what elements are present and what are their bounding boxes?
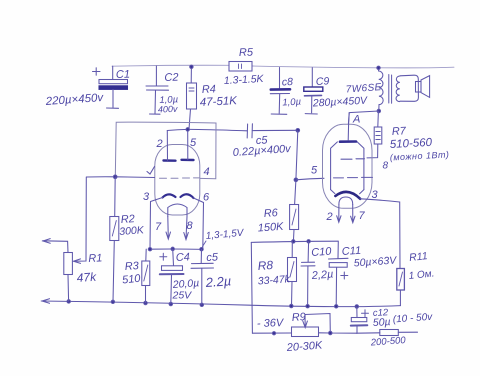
tube V1 grid dashes <box>160 177 200 179</box>
svg-text:C1: C1 <box>116 69 130 81</box>
svg-text:(10 - 50v: (10 - 50v <box>392 312 433 326</box>
svg-text:2.2µ: 2.2µ <box>204 273 232 290</box>
svg-text:510: 510 <box>122 273 142 287</box>
wire -36V feed <box>252 332 291 334</box>
svg-text:R8: R8 <box>257 258 274 273</box>
junction dot transformer bottom / node A <box>377 109 380 112</box>
wire bias node <box>251 241 338 242</box>
capacitor C11 <box>329 241 349 306</box>
svg-text:1.3-1.5K: 1.3-1.5K <box>224 73 265 87</box>
svg-text:6: 6 <box>203 192 210 204</box>
resistor R10 200-500 <box>357 330 418 336</box>
svg-text:A: A <box>352 114 360 126</box>
junction dot grid node <box>113 175 117 179</box>
svg-text:1 Ом.: 1 Ом. <box>408 268 435 282</box>
svg-text:50µ×63V: 50µ×63V <box>353 254 397 269</box>
junction dot C6 top <box>200 248 203 251</box>
svg-text:510-560: 510-560 <box>390 137 433 151</box>
svg-text:R1: R1 <box>88 252 103 265</box>
tube V2 anode box <box>331 142 364 194</box>
tube V2 heater <box>339 197 353 205</box>
svg-text:200-500: 200-500 <box>369 335 406 349</box>
capacitor C4 <box>160 249 184 304</box>
ground bus left arrow <box>42 299 50 304</box>
wire V2 anode lead <box>348 113 349 140</box>
svg-text:5: 5 <box>311 165 318 177</box>
transformer T1 secondary <box>396 76 400 102</box>
junction dot R8 bottom <box>290 304 293 307</box>
tube V1 cathode arcs <box>163 194 176 197</box>
capacitor C10 <box>301 241 315 306</box>
svg-text:R5: R5 <box>239 46 254 59</box>
svg-text:C2: C2 <box>164 72 178 84</box>
svg-text:47-51K: 47-51K <box>200 95 239 109</box>
transformer T1 primary <box>379 68 384 111</box>
tube V1 heater <box>168 204 187 217</box>
heater arrow 7 (V2) <box>351 205 355 223</box>
svg-text:8: 8 <box>383 161 389 172</box>
svg-text:47k: 47k <box>76 270 97 285</box>
resistor R5 <box>229 62 252 72</box>
svg-text:(можно 1Вт): (можно 1Вт) <box>390 149 450 162</box>
potentiometer R1 <box>43 177 87 301</box>
wire V1 grid pin1 to junction <box>87 176 155 179</box>
svg-text:0.22µ×400v: 0.22µ×400v <box>232 143 292 159</box>
heater arrow 2 (V2) <box>337 205 341 223</box>
svg-text:280µ×450V: 280µ×450V <box>312 95 369 110</box>
svg-text:1,0µ: 1,0µ <box>282 97 302 109</box>
wire ground bus <box>42 301 401 307</box>
transformer T1 core <box>389 75 392 104</box>
tube V2 grid1 dashes <box>341 158 365 160</box>
svg-text:2,2µ: 2,2µ <box>310 269 333 283</box>
wire V2 grid <box>296 178 324 180</box>
svg-text:25V: 25V <box>172 290 193 302</box>
svg-text:7: 7 <box>155 221 162 233</box>
capacitor C9 <box>304 68 323 114</box>
junction dot R1 bottom <box>67 300 70 303</box>
svg-text:R6: R6 <box>263 207 279 220</box>
svg-text:R9: R9 <box>291 311 306 324</box>
tick to cathode node <box>203 241 207 247</box>
resistor R11 <box>397 269 405 306</box>
junction dot C5 out top <box>296 129 300 133</box>
svg-text:4: 4 <box>204 166 210 178</box>
heater arrow 7 <box>166 217 171 240</box>
svg-text:C10: C10 <box>311 246 333 259</box>
capacitor C12 <box>351 307 369 334</box>
pin label 1 <box>147 167 155 175</box>
svg-text:7: 7 <box>359 210 366 222</box>
svg-text:50µ: 50µ <box>373 316 391 329</box>
wire B+ rail right segment <box>252 66 454 68</box>
resistor R2 <box>110 177 119 302</box>
svg-text:33-47k: 33-47k <box>257 273 291 287</box>
wire V1 grid loop pin4 <box>115 122 216 179</box>
wire bias feed down <box>251 242 252 333</box>
junction dot R2 bottom <box>111 300 114 303</box>
svg-text:3: 3 <box>143 191 150 203</box>
junction dot B+ / transformer <box>377 66 380 69</box>
capacitor C5 <box>247 124 298 138</box>
svg-text:c5: c5 <box>206 251 219 264</box>
wire node A <box>348 111 378 124</box>
junction dot C6 bottom <box>200 303 203 306</box>
svg-text:7W6SE: 7W6SE <box>345 82 382 95</box>
svg-text:300K: 300K <box>119 224 145 238</box>
svg-text:5: 5 <box>190 137 197 149</box>
svg-text:R7: R7 <box>392 125 408 138</box>
svg-text:R11: R11 <box>409 250 429 264</box>
junction dot R9 right <box>329 331 332 334</box>
tube V2 envelope <box>323 124 373 208</box>
svg-text:1,3-1,5V: 1,3-1,5V <box>205 228 245 242</box>
resistor R7 <box>367 111 382 158</box>
heater arrow 8 <box>184 217 189 240</box>
svg-text:2: 2 <box>326 211 333 223</box>
wire V1 cathode node <box>150 248 203 250</box>
junction dot C12 top <box>355 305 358 308</box>
wire V1 cathode pin6 <box>194 198 204 249</box>
speaker <box>400 75 430 101</box>
tube V2 grid2 dashes <box>334 176 373 179</box>
junction dot C10 top <box>307 240 310 243</box>
junction dot plate bus <box>186 128 189 131</box>
junction dot C11 bottom <box>335 305 338 308</box>
capacitor C6 <box>191 249 214 305</box>
junction dot R9 left lead <box>272 332 275 335</box>
wire V1 anode leads <box>166 131 168 161</box>
wire C5 to V2 grid <box>296 130 298 180</box>
capacitor C8 <box>270 68 290 115</box>
svg-text:C11: C11 <box>341 245 361 258</box>
svg-text:C9: C9 <box>316 75 330 88</box>
svg-text:220µ×450v: 220µ×450v <box>44 92 104 108</box>
resistor R8 <box>288 241 297 306</box>
svg-text:R3: R3 <box>124 260 140 273</box>
junction dot C4 bottom <box>169 302 172 305</box>
svg-text:- 36V: - 36V <box>257 317 285 330</box>
resistor R4 <box>187 67 197 129</box>
svg-text:2: 2 <box>156 138 163 150</box>
junction dot C10 bottom <box>306 305 309 308</box>
junction dot R6 bottom <box>292 240 295 243</box>
capacitor C1 <box>93 66 128 108</box>
svg-text:400v: 400v <box>158 104 178 115</box>
potentiometer R9 <box>292 314 357 337</box>
wire V1 cathode pin3 <box>150 198 163 250</box>
tube V1 anode plates <box>164 159 176 162</box>
wire B+ rail left segment <box>112 64 229 67</box>
svg-text:c8: c8 <box>282 76 294 89</box>
wire V1 plate bus to C5 <box>167 129 247 130</box>
svg-text:20-30K: 20-30K <box>285 340 323 355</box>
junction dot V2 grid node <box>294 178 298 182</box>
junction dot cathode left <box>148 248 151 251</box>
svg-text:R4: R4 <box>202 83 217 96</box>
wire V2 cathode pin3 to R11 <box>360 199 400 269</box>
svg-text:C4: C4 <box>176 251 191 264</box>
resistor R6 <box>290 180 299 242</box>
tube V1 envelope <box>155 145 200 216</box>
junction dot R4 top <box>190 65 193 68</box>
svg-text:8: 8 <box>187 220 194 232</box>
junction dot C4 top <box>171 247 174 250</box>
resistor R3 <box>142 249 150 303</box>
tube V2 cathode arc <box>335 192 360 199</box>
junction dot R3 bottom <box>144 301 147 304</box>
capacitor C2 <box>146 66 169 114</box>
svg-text:150K: 150K <box>257 221 284 235</box>
